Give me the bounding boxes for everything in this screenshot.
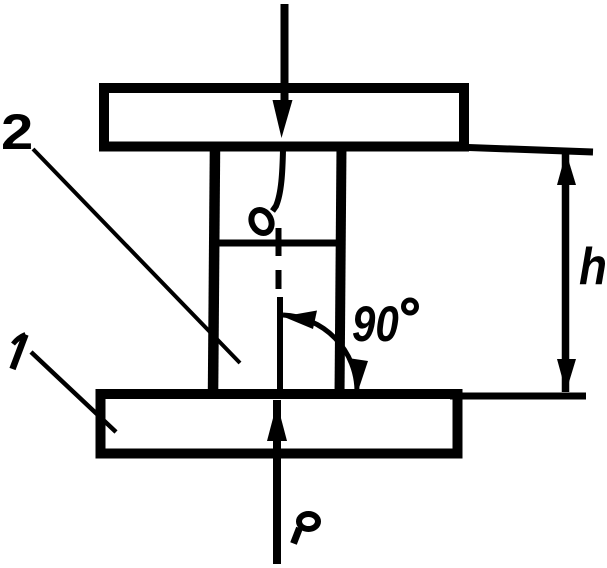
centerline dash 1 [276, 228, 282, 256]
label P loop [299, 514, 318, 529]
letter d ascender stroke [273, 150, 284, 211]
specimen cylinder right edge [340, 146, 342, 396]
h dimension arrowhead up [557, 152, 576, 185]
leader line from label 1 to lower platen [31, 352, 116, 432]
angle arc 90 degrees [283, 315, 357, 391]
diameter d line across cylinder [212, 240, 342, 247]
dimension line h vertical [562, 152, 570, 392]
centerline long dash [277, 297, 283, 392]
extension line h top [455, 147, 593, 152]
arrowhead top force (pointing down into upper platen) [273, 100, 293, 138]
arc arrowhead bottom (at platen line) [348, 358, 368, 391]
label 1 flag [13, 335, 26, 345]
force line bottom (load P axis) [273, 400, 281, 564]
upper platen plate [104, 88, 464, 147]
svg-text:90: 90 [352, 296, 399, 352]
specimen cylinder left edge [213, 146, 215, 396]
letter d loop [247, 206, 275, 236]
leader line from label 2 to cylinder [33, 149, 240, 363]
arrowhead bottom force (pointing up into lower platen) [267, 403, 287, 441]
centerline dash 2 [276, 270, 282, 289]
arc arrowhead left (at centerline) [283, 311, 317, 330]
h dimension arrowhead down [557, 359, 576, 392]
lower platen plate [101, 394, 458, 454]
extension line h bottom [450, 393, 586, 400]
label P tail [294, 528, 300, 544]
force line top (applied load axis) [281, 4, 289, 106]
svg-text:2: 2 [1, 105, 33, 160]
svg-text:h: h [579, 238, 607, 295]
degree sign of 90 [404, 300, 417, 313]
label 1 stem [13, 335, 26, 370]
